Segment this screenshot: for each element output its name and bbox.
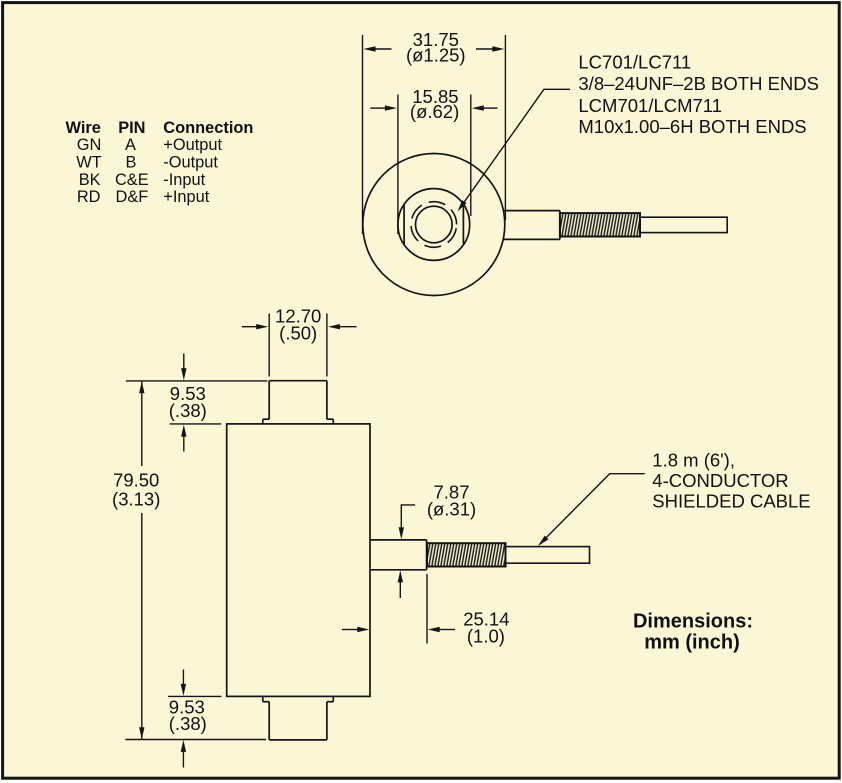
side view cable threads	[427, 543, 506, 566]
svg-text:PIN: PIN	[118, 119, 145, 137]
dimension 31.75 (ø1.25)	[363, 29, 506, 234]
leader to cable note	[538, 474, 645, 546]
svg-text:-Input: -Input	[163, 171, 205, 189]
wire table	[66, 119, 254, 206]
svg-text:A: A	[125, 136, 136, 154]
svg-text:C&E: C&E	[115, 171, 149, 189]
hex flat left	[403, 204, 405, 245]
hex flat right	[462, 204, 464, 245]
svg-text:B: B	[126, 153, 137, 171]
svg-text:(ø.31): (ø.31)	[427, 498, 476, 519]
front view middle circle	[398, 189, 470, 261]
svg-text:(3.13): (3.13)	[112, 488, 160, 509]
side view bottom stud	[263, 696, 334, 740]
svg-text:(ø1.25): (ø1.25)	[406, 44, 466, 65]
svg-text:SHIELDED CABLE: SHIELDED CABLE	[652, 490, 810, 511]
svg-text:3/8–24UNF–2B BOTH ENDS: 3/8–24UNF–2B BOTH ENDS	[578, 73, 819, 94]
dimension 9.53 (.38) top	[126, 354, 268, 452]
svg-text:BK: BK	[79, 171, 101, 189]
dimension 25.14 (1.0)	[342, 574, 510, 646]
inner hole circle	[416, 206, 453, 243]
svg-text:WT: WT	[76, 153, 101, 171]
svg-text:+Output: +Output	[163, 136, 222, 154]
side view plain cable	[506, 547, 590, 564]
cable note text	[652, 449, 810, 511]
front view outer circle	[363, 154, 505, 296]
side view body	[227, 424, 370, 697]
dimension 12.70 (.50)	[242, 305, 357, 376]
svg-text:+Input: +Input	[163, 188, 209, 206]
svg-text:GN: GN	[77, 136, 102, 154]
svg-text:-Output: -Output	[163, 153, 218, 171]
svg-text:LCM701/LCM711: LCM701/LCM711	[578, 95, 722, 116]
svg-text:mm (inch): mm (inch)	[644, 632, 740, 654]
svg-text:(.38): (.38)	[169, 713, 207, 734]
svg-text:1.8 m (6'),: 1.8 m (6'),	[652, 449, 735, 470]
svg-text:LC701/LC711: LC701/LC711	[578, 52, 691, 73]
dimension 79.50 (3.13)	[112, 381, 160, 739]
svg-text:(.50): (.50)	[279, 323, 317, 344]
svg-text:4-CONDUCTOR: 4-CONDUCTOR	[652, 470, 788, 491]
svg-text:(ø.62): (ø.62)	[410, 101, 459, 122]
svg-text:(.38): (.38)	[169, 400, 207, 421]
dimension 9.53 (.38) bottom	[125, 670, 266, 768]
dimensions note	[633, 610, 753, 653]
svg-text:(1.0): (1.0)	[467, 625, 505, 646]
front view cable threads	[560, 213, 640, 236]
svg-text:D&F: D&F	[116, 188, 149, 206]
front view plain cable	[640, 217, 727, 232]
dashed thread circle	[411, 202, 457, 248]
side view cable fitting	[370, 540, 427, 570]
dimension 15.85 (ø.62)	[370, 86, 497, 234]
side view top stud	[263, 381, 334, 424]
thread note text	[578, 52, 819, 138]
svg-text:M10x1.00–6H BOTH ENDS: M10x1.00–6H BOTH ENDS	[578, 116, 806, 137]
leader to thread note	[458, 89, 571, 211]
svg-text:Dimensions:: Dimensions:	[633, 610, 753, 632]
svg-text:Connection: Connection	[163, 119, 253, 137]
dimension 7.87 (ø.31)	[398, 481, 477, 598]
front view cable fitting	[503, 211, 560, 240]
svg-text:RD: RD	[77, 188, 101, 206]
svg-text:Wire: Wire	[66, 119, 101, 137]
